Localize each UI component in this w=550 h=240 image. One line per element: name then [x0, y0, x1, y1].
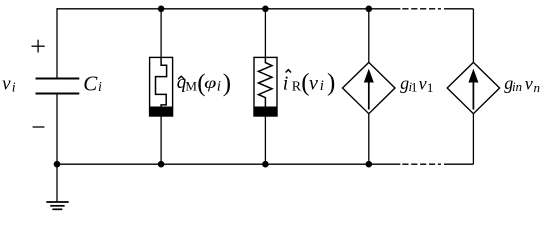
ground — [46, 201, 68, 203]
resistor box — [254, 57, 277, 116]
wire bottom rail solid right — [444, 163, 473, 165]
wire ground stub — [56, 164, 58, 202]
svg-text:v: v — [525, 73, 533, 93]
svg-text:): ) — [327, 70, 335, 97]
label qM(phi i) — [177, 70, 231, 97]
hat over q — [178, 76, 184, 79]
label ginvn — [504, 73, 540, 95]
label vi — [2, 73, 16, 95]
resistor bottom bar — [254, 107, 277, 117]
controlled source U1 arrow — [364, 69, 374, 110]
svg-text:M: M — [185, 79, 197, 94]
wire left branch top — [56, 8, 58, 78]
wire resistor top lead — [264, 9, 266, 58]
memristor bottom bar — [150, 107, 173, 117]
svg-text:C: C — [83, 71, 98, 95]
wire bottom rail solid left — [57, 163, 400, 165]
svg-text:v: v — [309, 72, 318, 94]
wire left branch bottom — [56, 94, 58, 165]
resistor zigzag — [258, 57, 272, 107]
svg-text:): ) — [223, 70, 231, 97]
wire source U1 bottom lead — [368, 114, 370, 165]
svg-text:φ: φ — [204, 75, 216, 92]
wire bottom rail dashed — [402, 163, 441, 165]
wire memristor top lead — [160, 9, 162, 58]
svg-text:n: n — [534, 80, 541, 95]
node dot bottom source1 — [366, 161, 373, 168]
svg-text:i: i — [283, 72, 289, 94]
node dot bottom resistor — [262, 161, 269, 168]
minus sign — [33, 126, 45, 128]
svg-text:i: i — [98, 80, 102, 95]
label Ci — [83, 71, 102, 95]
wire top rail dashed — [402, 8, 441, 10]
wire resistor bottom lead — [264, 116, 266, 164]
svg-text:i: i — [12, 80, 16, 95]
svg-text:i: i — [217, 78, 221, 94]
capacitor Ci top plate — [36, 78, 80, 80]
svg-text:n: n — [516, 79, 523, 94]
wire source U2 top lead — [472, 9, 474, 63]
memristor meander — [156, 57, 167, 107]
controlled source U2 diamond — [447, 62, 499, 113]
node dot top memristor — [158, 6, 165, 13]
svg-text:v: v — [419, 73, 427, 93]
wire top rail solid right — [444, 8, 473, 10]
label gi1v1 — [400, 73, 433, 95]
svg-text:1: 1 — [411, 79, 418, 94]
controlled source U1 diamond — [343, 62, 396, 113]
capacitor Ci bottom plate — [36, 93, 80, 95]
svg-text:i: i — [320, 78, 324, 94]
node dot bottom memristor — [158, 161, 165, 168]
hat over i — [286, 70, 292, 73]
wire memristor bottom lead — [160, 116, 162, 164]
node dot top source1 — [366, 6, 373, 13]
svg-text:v: v — [2, 73, 11, 94]
node dot top resistor — [262, 6, 269, 13]
svg-text:1: 1 — [427, 80, 434, 95]
label iR(vi) — [283, 70, 336, 97]
node dot bottom ground — [54, 161, 61, 168]
plus polarity sign — [32, 40, 45, 53]
wire source U1 top lead — [368, 9, 370, 63]
controlled source U2 arrow — [468, 69, 478, 110]
wire source U2 bottom lead — [472, 114, 474, 165]
wire top rail solid left — [57, 8, 400, 10]
memristor box — [150, 57, 173, 116]
